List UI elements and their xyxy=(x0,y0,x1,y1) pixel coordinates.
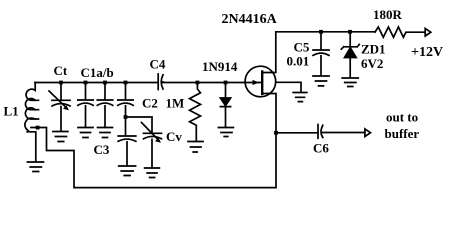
svg-text:180R: 180R xyxy=(373,7,403,22)
capacitor C5 xyxy=(313,32,329,76)
node C2 top xyxy=(124,81,128,85)
node Ct xyxy=(59,81,63,85)
ground C1b xyxy=(98,128,113,138)
svg-text:out to: out to xyxy=(386,110,418,125)
svg-text:C3: C3 xyxy=(94,142,110,157)
wire gate rail xyxy=(163,82,262,84)
arrow +12V xyxy=(425,28,431,36)
svg-text:C6: C6 xyxy=(313,141,329,156)
ground L1 xyxy=(27,162,43,172)
transistor U1 2N4416A JFET xyxy=(245,66,276,97)
wire supply rail xyxy=(276,31,375,33)
capacitor Ct (trimmer) xyxy=(52,83,70,132)
node source junction xyxy=(274,131,278,135)
jfet drain lead xyxy=(262,32,276,73)
resistor 1M xyxy=(190,83,201,142)
svg-text:+12V: +12V xyxy=(411,45,443,60)
jfet gate arrow xyxy=(253,80,260,85)
svg-text:Cv: Cv xyxy=(166,129,182,144)
capacitor C3 xyxy=(118,117,136,166)
ground Cv xyxy=(145,168,160,178)
ground 1N914 xyxy=(218,128,233,137)
jfet case lead xyxy=(276,82,301,92)
svg-text:2N4416A: 2N4416A xyxy=(222,12,278,27)
trimmer arrow Cv xyxy=(142,123,159,141)
svg-text:1N914: 1N914 xyxy=(202,59,238,74)
ground C1a xyxy=(78,128,93,138)
node ZD1 top xyxy=(348,30,352,34)
capacitor C6 (series) xyxy=(318,125,323,139)
svg-text:C5: C5 xyxy=(294,40,310,55)
wire source to C6 xyxy=(276,132,318,134)
inductor L1 xyxy=(25,83,39,132)
node 1M xyxy=(196,81,200,85)
svg-text:buffer: buffer xyxy=(385,126,420,141)
wire tank top rail xyxy=(35,82,158,84)
node C5 top xyxy=(319,30,323,34)
arrow out to buffer xyxy=(365,129,371,137)
svg-text:Ct: Ct xyxy=(54,63,68,78)
ground Ct xyxy=(53,132,68,142)
resistor 180R xyxy=(375,27,425,37)
node C1a xyxy=(84,81,88,85)
node tap junction xyxy=(36,126,40,130)
ground C5 xyxy=(313,76,329,86)
node 1N914 xyxy=(224,81,228,85)
svg-text:6V2: 6V2 xyxy=(361,56,383,71)
capacitor C1a xyxy=(78,83,93,128)
jfet channel bar xyxy=(261,72,263,95)
ground ZD1 xyxy=(342,78,358,87)
node C1b xyxy=(103,81,107,85)
svg-text:C1a/b: C1a/b xyxy=(81,65,114,80)
zener ZD1 xyxy=(341,32,359,49)
capacitor C2 xyxy=(118,83,133,118)
wire L1 ground stub xyxy=(27,132,36,162)
ground 1M xyxy=(188,142,203,153)
wire C6 to buffer xyxy=(323,132,365,134)
trimmer arrow Ct xyxy=(49,91,66,108)
capacitor C1b xyxy=(97,83,112,128)
svg-text:L1: L1 xyxy=(4,104,19,119)
jfet source lead xyxy=(262,94,276,133)
wire C2 to Cv xyxy=(126,117,153,133)
diode 1N914 xyxy=(225,83,227,99)
wire L1 tap xyxy=(31,128,276,188)
svg-text:1M: 1M xyxy=(166,96,185,111)
svg-text:0.01: 0.01 xyxy=(287,54,310,69)
svg-text:C2: C2 xyxy=(142,96,158,111)
svg-text:ZD1: ZD1 xyxy=(361,42,386,57)
capacitor Cv (variable) xyxy=(144,133,162,167)
node C2 bottom junction xyxy=(124,115,128,119)
ground case xyxy=(293,93,307,102)
ground C3 xyxy=(119,166,136,176)
capacitor C4 (series) xyxy=(158,74,163,90)
svg-text:C4: C4 xyxy=(150,57,166,72)
